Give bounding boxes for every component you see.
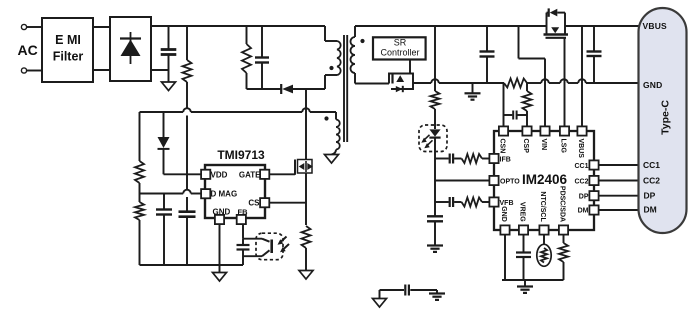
svg-text:PDSC/SDA: PDSC/SDA [558,186,565,222]
svg-text:VREG: VREG [518,202,525,222]
svg-text:SR: SR [394,38,407,48]
svg-text:DP: DP [644,190,656,200]
svg-text:CSP: CSP [522,139,529,154]
svg-text:VDD: VDD [211,170,228,179]
svg-text:IFB: IFB [500,157,511,164]
svg-text:VBUS: VBUS [577,139,584,159]
svg-text:GATE: GATE [239,170,261,179]
svg-text:AC: AC [18,42,38,58]
svg-text:GND: GND [500,206,507,222]
svg-text:D MAG: D MAG [211,190,238,199]
svg-text:TMI9713: TMI9713 [217,148,265,162]
svg-text:GND: GND [213,208,231,217]
svg-text:CC1: CC1 [643,160,660,170]
svg-text:NTC/SCL: NTC/SCL [539,191,546,222]
svg-text:GND: GND [643,80,663,90]
svg-text:Filter: Filter [53,50,84,64]
svg-text:CC1: CC1 [574,163,588,170]
svg-text:DM: DM [644,205,657,215]
svg-text:VBUS: VBUS [643,21,668,31]
svg-text:IM2406: IM2406 [522,172,568,187]
svg-text:DP: DP [579,193,589,200]
svg-text:CC2: CC2 [643,175,660,185]
svg-text:E MI: E MI [55,33,81,47]
svg-text:FB: FB [238,207,249,216]
svg-text:VIN: VIN [540,139,547,151]
svg-text:DM: DM [578,208,589,215]
svg-text:Controller: Controller [380,48,419,58]
svg-text:CC2: CC2 [574,178,588,185]
svg-text:CSN: CSN [498,139,505,154]
svg-text:Type-C: Type-C [660,100,672,135]
svg-text:CS: CS [248,199,260,208]
svg-text:LSG: LSG [559,139,566,154]
svg-text:OPTO: OPTO [500,179,520,186]
